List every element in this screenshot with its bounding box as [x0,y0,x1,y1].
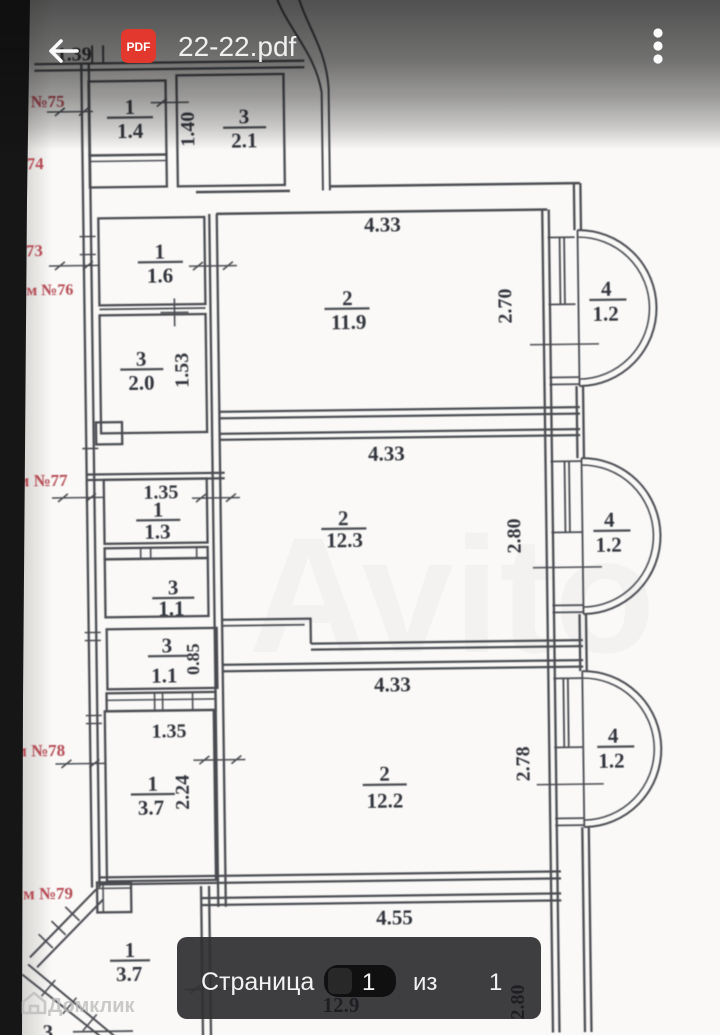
svg-text:м №77: м №77 [18,471,69,491]
window notch 1.6 [80,236,96,254]
room label 1/1.3 [144,497,171,543]
room label 1/1.4 [117,95,144,143]
wall divider unit2 [87,473,225,480]
room label 3/1.1a [158,575,185,620]
svg-text:3: 3 [136,347,147,371]
wall stubs above top [92,45,103,63]
wall left outer double [81,64,99,888]
wall 12.9 left double vertical [201,886,211,1035]
svg-text:1: 1 [153,498,164,522]
step notch 12.3 [222,619,311,645]
balcony B1 arc [577,229,657,386]
svg-text:4: 4 [604,508,615,532]
svg-text:2: 2 [342,286,353,310]
svg-text:1.1: 1.1 [151,663,178,687]
wall mid horizontal left part [196,191,290,192]
fraction line 1.3 [136,519,180,522]
closet square 2.0 [96,422,122,444]
room box 3.7 [105,710,216,881]
fraction line 3.7 bottom [110,959,150,962]
dim 1.53 vertical [171,353,193,388]
outer wall between balcony2-3 [580,614,587,671]
svg-text:12.9: 12.9 [323,993,360,1017]
balcony label 4/1.2 u3 [598,724,625,773]
dim tick left y262 [49,261,99,270]
svg-text:12.3: 12.3 [326,528,363,552]
staircase flight B [22,963,117,1035]
balcony label 4/1.2 u1 [592,277,619,326]
svg-text:м №79: м №79 [23,884,73,904]
svg-text:12.2: 12.2 [366,788,403,812]
dim tick right y264 [189,262,237,271]
toolbar panel [177,937,541,1019]
svg-text:3: 3 [161,633,172,657]
stair label 3 [43,1020,54,1035]
room right wall double vertical [542,210,559,1033]
wall top outer double [34,61,304,71]
closet strip below 1.1b [107,692,216,711]
svg-text:1.35: 1.35 [151,720,186,742]
svg-text:1: 1 [489,969,502,996]
svg-text:1.2: 1.2 [592,302,619,326]
outer wall right segment above balcony1 [574,183,581,230]
svg-text:11.9: 11.9 [331,310,367,334]
svg-text:1.53: 1.53 [171,353,193,388]
dim tick left y108 [47,107,93,116]
fraction line 1.4 [107,116,153,119]
dim 4.33 u3 [374,672,411,696]
svg-text:2.80: 2.80 [503,518,525,553]
svg-text:0.85: 0.85 [183,643,203,675]
dim 2.78 vertical u3 [512,746,534,781]
svg-text:2.78: 2.78 [512,746,534,781]
svg-text:1: 1 [154,240,165,264]
stair steps A [38,907,80,949]
dim 4.55 [376,905,413,929]
svg-text:2.70: 2.70 [494,288,516,323]
room label 3/1.1b [151,633,178,687]
porch square [97,882,131,912]
svg-text:см №76: см №76 [19,282,73,300]
wall unit2 top double [219,429,580,440]
dim tick right y758 [193,756,245,765]
svg-text:3: 3 [43,1020,54,1035]
dim 4.33 u1 [364,212,401,236]
svg-text:PDF: PDF [127,40,151,54]
dim label 1.35 u2 [143,481,178,503]
room R1-1 box 1.4 [88,81,166,156]
window u2 [551,461,583,532]
wall double between 1.6 and 2.0 [99,308,205,309]
staircase flight A [29,889,104,967]
svg-text:из: из [413,969,437,996]
dim tick u1 [530,343,599,346]
room box 1.3 [104,479,208,544]
svg-text:4: 4 [601,277,612,301]
fraction line 1.2 u3 [597,745,634,748]
Domclick watermark [23,993,135,1017]
svg-text:Домклик: Домклик [48,995,135,1017]
svg-text:1: 1 [124,938,135,962]
menu dots [653,28,662,63]
svg-text:3.7: 3.7 [116,962,143,986]
room label 1/1.6 [146,239,173,287]
fraction line 1.2 u1 [589,298,626,301]
room box 1.1a [105,558,209,617]
top gradient scrim [0,0,720,150]
room label 2/12.3 [326,506,363,552]
dim 2.80 vertical u2 [503,518,525,553]
svg-text:4.33: 4.33 [374,672,411,696]
door tick top [151,98,189,106]
room label 2/12.2 [366,761,403,812]
wall unit3 top double [222,660,583,671]
stair base line [73,1030,133,1033]
dim tick u3 [537,783,604,786]
svg-text:3.7: 3.7 [138,796,165,820]
wall curved street edge [276,0,330,191]
window u3 [553,678,583,747]
svg-text:Страница: Страница [201,968,314,996]
house icon [23,993,45,1013]
wall top outer right [330,183,580,186]
svg-text:4.33: 4.33 [368,441,405,465]
svg-text:2.0: 2.0 [128,371,155,395]
partition strip 1.1a [105,547,208,559]
window tick y445 [82,447,98,449]
svg-text:4: 4 [608,724,619,748]
room label 2/11.9 [330,286,366,334]
dim tick left y495 [52,493,104,502]
fraction line 12.3 [321,527,366,530]
fraction line 12.2 [363,783,407,786]
fraction line 3.7 [131,793,175,796]
fraction line 1.6 [138,261,183,264]
window u1 [548,237,576,304]
room box 2.0 [100,314,208,433]
room label 3/2.1 [231,104,258,152]
balcony label 4/1.2 u2 [595,508,622,557]
balcony B3 floor [555,818,584,825]
svg-text:1: 1 [362,969,375,996]
balcony B1 floor [549,377,579,384]
window notch 1.1b [85,632,101,640]
svg-text:22-22.pdf: 22-22.pdf [178,31,297,62]
svg-text:1.6: 1.6 [147,263,174,287]
room label 3/2.0 [128,347,155,395]
wall unit2 bottom double [311,640,583,650]
wall 12.9 top double [201,893,561,905]
wall unit1 bottom double [219,407,580,418]
closet below 1.4 [89,155,166,188]
back arrow [51,41,77,61]
room box 1.6 [98,217,205,305]
room label 1/3.7 [137,772,164,820]
room box 1.1b [107,628,218,689]
fraction line 2.0 [120,368,163,371]
svg-text:2.80: 2.80 [507,985,529,1020]
svg-text:2.24: 2.24 [172,775,194,810]
svg-text:2: 2 [338,506,349,530]
svg-text:4.33: 4.33 [364,212,401,236]
fraction line 2.1 [223,126,266,129]
balcony B3 arc [582,670,662,827]
step notch second line [222,625,305,626]
svg-text:1.2: 1.2 [595,533,622,557]
dim 2.70 vertical [494,288,516,323]
dim tick left y760 [55,759,105,768]
PDF icon [121,29,156,63]
room R1-2 box 2.1 [176,74,284,186]
page number pill [324,965,396,997]
outer wall below balcony3 [582,827,591,1032]
dim tick y987 [184,985,242,994]
fraction line 1.1b [148,655,188,658]
dim 2.24 vertical [172,775,194,810]
svg-text:4.55: 4.55 [376,905,413,929]
fraction line 1.1a [152,597,194,600]
svg-text:1: 1 [147,772,158,796]
svg-text:1.1: 1.1 [158,596,185,620]
outer wall between balcony1-2 [577,386,584,458]
fraction line 1.2 u2 [593,529,630,532]
bottom toolbar [177,937,541,1020]
dim tick right y496 [192,494,240,503]
dim 4.33 u2 [368,441,405,465]
room label 1/3.7 bottom [116,938,143,986]
dim label 1.35 u3 [151,720,186,742]
balcony B2 floor [552,605,583,612]
wall unit3 bottom double [99,871,561,884]
dim 0.85 vertical [183,643,203,675]
dim 1.40 vertical [177,112,199,147]
stair steps B [41,979,97,1031]
red apartment labels [7,92,82,904]
black left bar [0,0,30,1035]
balcony B2 arc [581,457,661,614]
svg-text:2: 2 [379,762,390,786]
svg-text:1.2: 1.2 [598,749,625,773]
room 11.9 top wall [216,210,547,214]
svg-text:1.3: 1.3 [144,519,171,543]
junction cross tick [160,298,188,326]
dim tick u2 [533,566,602,569]
window notch 3.7 [86,715,102,723]
fraction line 11.9 [324,307,369,310]
corridor wall double vertical [209,214,226,907]
